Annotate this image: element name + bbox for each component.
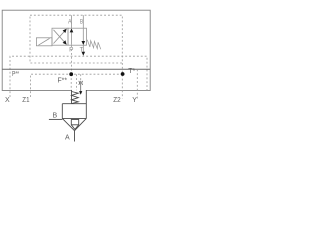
svg-text:P**: P** [12,71,19,78]
pilot valve dashed enclosure [30,15,122,63]
svg-text:A: A [68,19,72,26]
wire: crossed arrow 1 [54,31,66,44]
svg-text:Z1: Z1 [22,97,29,104]
wire: F connector to chamber [76,74,78,90]
solenoid S1 [36,38,52,46]
svg-text:Y: Y [132,97,137,104]
wire: main solid passage P*/T* [2,68,150,70]
wire: up arrow P to A [71,31,73,45]
valve right square (parallel arrows) [68,28,87,45]
wire: port B line up [82,15,84,28]
wire: down arrow B to T [82,29,84,43]
wire: port A line up [71,15,73,28]
orifice (nozzle) [79,81,83,85]
wire: interface dashed line from X to right corner [10,56,147,97]
spring (valve return) [87,40,101,49]
wire: P pilot line down to junction [71,45,73,74]
svg-text:B: B [53,113,58,120]
junction dot2 (Z2) [121,72,125,76]
wire: plate bottom edge gap cover (white over gap for spring chamber) [72,90,87,92]
svg-text:T*: T* [128,68,135,75]
svg-text:B: B [80,18,83,25]
junction dot1 (pilot P) [69,72,73,76]
svg-text:A: A [65,135,70,142]
cartridge housing [62,103,86,105]
svg-text:X: X [5,97,10,104]
wire: port B stub [49,118,62,120]
poppet seat V [62,118,74,130]
valve left square (crossed arrows) [52,28,68,45]
cover plate outline [2,10,150,90]
wire: Z2 line full (valve box edge down to port) [121,63,123,99]
svg-text:F**: F** [58,78,68,85]
wire: F pilot continuation into spring chamber [70,74,72,90]
wire: crossed arrow 2 [54,30,66,43]
cartridge spring [72,92,79,104]
svg-text:Z2: Z2 [113,97,120,104]
poppet cone [71,120,78,125]
wire: port A stub [74,131,76,142]
wire: Z1 to Z2 dashed pilot line [31,74,123,97]
wire: T line down with arrow [82,45,84,52]
wire: pilot branch to spring chamber [80,74,82,81]
cartridge spring chamber walls [71,90,73,104]
wire: Y port line [136,69,138,100]
